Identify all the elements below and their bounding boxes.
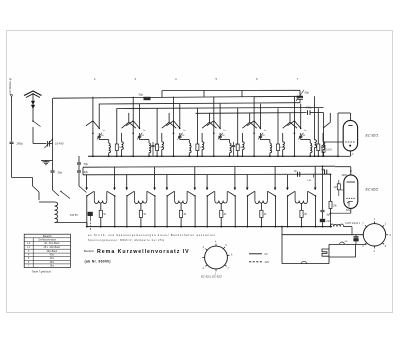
svg-text:4MΩ: 4MΩ <box>342 174 347 177</box>
svg-text:KW 50: KW 50 <box>70 214 78 217</box>
svg-text:41m: 41m <box>50 255 55 257</box>
svg-text:vom Drehko gr.: vom Drehko gr. <box>8 77 12 95</box>
svg-text:Bereich: Bereich <box>43 235 52 238</box>
svg-text:0,1M: 0,1M <box>326 149 331 152</box>
svg-text:3,2Hz 23mA 1: 3,2Hz 23mA 1 <box>345 222 361 225</box>
svg-text:EC 92/1: EC 92/1 <box>366 134 379 138</box>
svg-text:25 u. 19m-Band: 25 u. 19m-Band <box>44 247 61 249</box>
svg-text:280p: 280p <box>16 141 24 145</box>
svg-text:10-450: 10-450 <box>55 142 64 146</box>
svg-text:49...31m-Band: 49...31m-Band <box>44 243 60 245</box>
svg-text:50p: 50p <box>139 93 144 97</box>
svg-text:30V: 30V <box>346 209 351 212</box>
svg-text:1w: 1w <box>223 130 226 132</box>
svg-text:an Strich- und Spannungsmessun: an Strich- und Spannungsmessungen dieser… <box>88 234 216 237</box>
svg-text:50p: 50p <box>305 91 310 95</box>
svg-text:25m: 25m <box>50 262 55 264</box>
svg-text:19m: 19m <box>50 265 55 267</box>
svg-text:12V: 12V <box>265 260 270 264</box>
svg-text:50p: 50p <box>84 162 89 166</box>
svg-text:31m: 31m <box>50 258 55 260</box>
svg-text:470p: 470p <box>306 106 312 110</box>
svg-text:5Ω: 5Ω <box>345 241 348 243</box>
svg-text:1M: 1M <box>334 187 337 189</box>
svg-text:6V: 6V <box>265 252 268 256</box>
svg-text:Spannungsmesser: BMZ/IV, Meßwe: Spannungsmesser: BMZ/IV, Meßwerte bei 25… <box>88 239 165 242</box>
svg-text:54p: 54p <box>321 169 326 172</box>
svg-text:50p: 50p <box>58 171 63 175</box>
svg-text:49m-Band: 49m-Band <box>46 251 57 253</box>
svg-text:Drehkondensator: Drehkondensator <box>38 239 56 242</box>
svg-text:20n: 20n <box>326 220 332 223</box>
svg-text:(ab Nr. 96000): (ab Nr. 96000) <box>85 260 111 264</box>
svg-text:Rema Kurzwellenvorsatz IV: Rema Kurzwellenvorsatz IV <box>97 249 190 255</box>
svg-text:EC 92/1, EC 92/2: EC 92/1, EC 92/2 <box>201 275 222 279</box>
svg-text:EC 92/2: EC 92/2 <box>366 188 379 192</box>
svg-text:Besitzer: Besitzer <box>84 249 94 253</box>
svg-text:Taste 7 gedrückt: Taste 7 gedrückt <box>32 270 51 274</box>
svg-text:30p: 30p <box>84 170 89 174</box>
